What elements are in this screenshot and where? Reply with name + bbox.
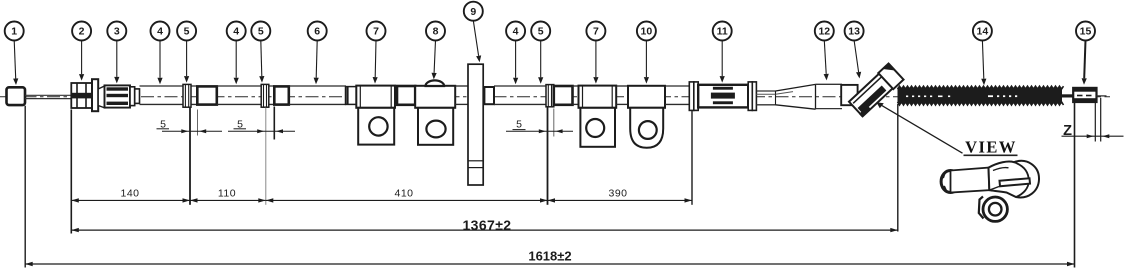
- svg-text:9: 9: [470, 6, 476, 18]
- svg-text:1: 1: [11, 26, 17, 38]
- end fitting before bracket: [346, 87, 357, 105]
- dimension line 410: [266, 188, 548, 203]
- balloon 4: [151, 22, 170, 41]
- dimension line 110: [190, 188, 266, 203]
- balloon 3: [107, 22, 126, 41]
- eye bracket item 10: [628, 86, 665, 148]
- leader line to item 4: [157, 40, 162, 84]
- leader line to item 3: [114, 40, 119, 83]
- leader line to item 5: [259, 40, 264, 82]
- clamp band item 5 (second): [261, 84, 269, 107]
- svg-text:VIEW: VIEW: [965, 137, 1017, 156]
- svg-text:15: 15: [1080, 26, 1092, 38]
- balloon 14: [973, 22, 992, 41]
- balloon 8: [426, 22, 445, 41]
- clamp band item 5 (third): [546, 85, 554, 107]
- extension line at item 15 left: [1074, 103, 1076, 268]
- extension line at spring start: [897, 104, 899, 232]
- VIEW detail: eyelet ring: [979, 197, 1008, 222]
- conduit hose item 4 (third): [494, 86, 547, 104]
- svg-text:2: 2: [79, 26, 85, 38]
- extension line right of band 3: [553, 109, 555, 137]
- elbow socket: [841, 85, 857, 105]
- extension line at band 2: [265, 108, 267, 205]
- svg-text:5: 5: [184, 26, 190, 38]
- svg-text:4: 4: [157, 26, 163, 38]
- VIEW detail: cable slot bar: [1000, 178, 1031, 186]
- coil spring item 14: [898, 86, 1064, 105]
- svg-text:6: 6: [314, 26, 320, 38]
- leader line to item 2: [79, 40, 84, 80]
- balloon 4: [506, 22, 525, 41]
- extension line at coupling B: [273, 107, 275, 140]
- leader line to item 1: [13, 40, 18, 85]
- cylinder section item 12: [816, 84, 843, 108]
- conduit hose item 4 (second): [217, 86, 274, 104]
- balloon 2: [72, 22, 91, 41]
- tapered cone item 12: [776, 84, 816, 109]
- cable end fitting item 1: [7, 87, 26, 105]
- coupling sleeve B: [274, 86, 289, 104]
- svg-text:14: 14: [977, 26, 989, 38]
- centerline axis: [0, 96, 1110, 98]
- extension line at flange pair: [691, 111, 693, 205]
- small dimension 5 C: [506, 118, 573, 133]
- leader line to item 11: [720, 40, 725, 82]
- leader line to item 4: [513, 40, 518, 84]
- coupling sleeve C: [397, 86, 415, 105]
- balloon 15: [1076, 22, 1095, 41]
- balloon 13: [845, 22, 864, 41]
- svg-text:8: 8: [433, 26, 439, 38]
- hose segment: [665, 86, 689, 104]
- extension line at coupling A: [197, 110, 199, 136]
- balloon 4: [227, 22, 246, 41]
- leader line to item 9: [473, 21, 481, 63]
- small dimension 5 A: [157, 118, 223, 133]
- balloon 5: [251, 22, 270, 41]
- clamp band item 5 (first): [183, 84, 191, 107]
- svg-text:11: 11: [717, 26, 728, 38]
- svg-text:3: 3: [114, 26, 120, 38]
- balloon 10: [637, 22, 656, 41]
- dimension line 390: [548, 188, 693, 203]
- svg-text:410: 410: [394, 188, 413, 200]
- VIEW detail: elbow body: [989, 161, 1040, 198]
- leader line to item 15: [1082, 40, 1087, 85]
- dimension Z: [1062, 123, 1124, 139]
- leader line to item 13: [854, 40, 861, 78]
- svg-text:5: 5: [516, 118, 522, 130]
- hose segment: [616, 86, 628, 104]
- svg-text:1618±2: 1618±2: [528, 249, 571, 264]
- grommet bracket item 8: [415, 80, 455, 144]
- leader line to item 5: [538, 40, 543, 84]
- angled elbow item 13: [848, 63, 904, 117]
- extension line at band 3: [547, 107, 549, 204]
- balloon 7: [367, 22, 386, 41]
- spline sleeve item 3: [98, 85, 139, 107]
- end fitting item 15: [1073, 88, 1106, 102]
- svg-text:4: 4: [513, 26, 519, 38]
- leader line to item 7: [373, 40, 378, 83]
- balloon 6: [308, 22, 327, 41]
- mounting plate item 9: [468, 64, 483, 185]
- svg-text:7: 7: [373, 26, 379, 38]
- balloon 5: [531, 22, 550, 41]
- clamp bracket item 7 (second): [579, 86, 617, 147]
- svg-text:390: 390: [608, 188, 627, 200]
- extension line Z left: [1094, 103, 1096, 142]
- extension line at band 1: [189, 108, 191, 205]
- balloon 9: [464, 2, 483, 21]
- hose segment: [573, 86, 579, 104]
- leader line to item 7: [593, 40, 598, 83]
- conduit hose item 6: [289, 86, 346, 104]
- svg-text:4: 4: [233, 26, 239, 38]
- flange pair at conduit end: [689, 82, 698, 111]
- adjuster fitting item 2: [71, 79, 98, 111]
- leader line to item 6: [314, 40, 319, 84]
- balloon 11: [713, 22, 732, 41]
- dimension line 140: [71, 188, 190, 203]
- coupling sleeve D: [554, 86, 573, 105]
- svg-text:Z: Z: [1063, 123, 1072, 139]
- cable rod wire: [25, 95, 72, 98]
- VIEW detail: boot cylinder: [941, 168, 989, 193]
- leader line to item 5: [184, 40, 189, 82]
- VIEW label: [964, 137, 1018, 156]
- dimension line 1618: [25, 249, 1074, 267]
- ribbed fitting item 11: [698, 82, 756, 111]
- leader line to item 12: [824, 40, 829, 80]
- svg-text:140: 140: [120, 188, 139, 200]
- svg-text:10: 10: [641, 26, 653, 38]
- svg-text:13: 13: [848, 26, 860, 38]
- leader line to item 4: [234, 40, 239, 84]
- small dimension 5 B: [228, 118, 295, 133]
- balloon 1: [5, 22, 24, 41]
- retainer ring after plate: [484, 87, 494, 104]
- extension line from item 1: [24, 106, 26, 268]
- balloon 7: [586, 22, 605, 41]
- leader line to item 10: [644, 40, 649, 83]
- balloon 5: [177, 22, 196, 41]
- extension line Z right: [1100, 98, 1102, 142]
- clamp bracket item 7 (first): [356, 86, 395, 145]
- extension line from item 2: [70, 110, 72, 234]
- svg-text:5: 5: [538, 26, 544, 38]
- small tube after item 11: [756, 91, 775, 105]
- svg-text:1367±2: 1367±2: [462, 217, 511, 233]
- dimension line 1367: [71, 217, 898, 233]
- leader line to item 8: [432, 40, 437, 79]
- leader line to item 14: [981, 40, 986, 85]
- coupling sleeve A: [197, 86, 217, 104]
- conduit hose item 4 (first): [140, 86, 198, 104]
- svg-text:7: 7: [593, 26, 599, 38]
- svg-text:110: 110: [218, 188, 236, 200]
- svg-text:12: 12: [818, 26, 830, 38]
- rod after spring: [1062, 94, 1073, 97]
- hose segment: [395, 86, 397, 104]
- balloon 12: [815, 22, 834, 41]
- svg-text:5: 5: [258, 26, 264, 38]
- leader line to VIEW detail: [876, 102, 962, 153]
- hose segment: [455, 86, 468, 104]
